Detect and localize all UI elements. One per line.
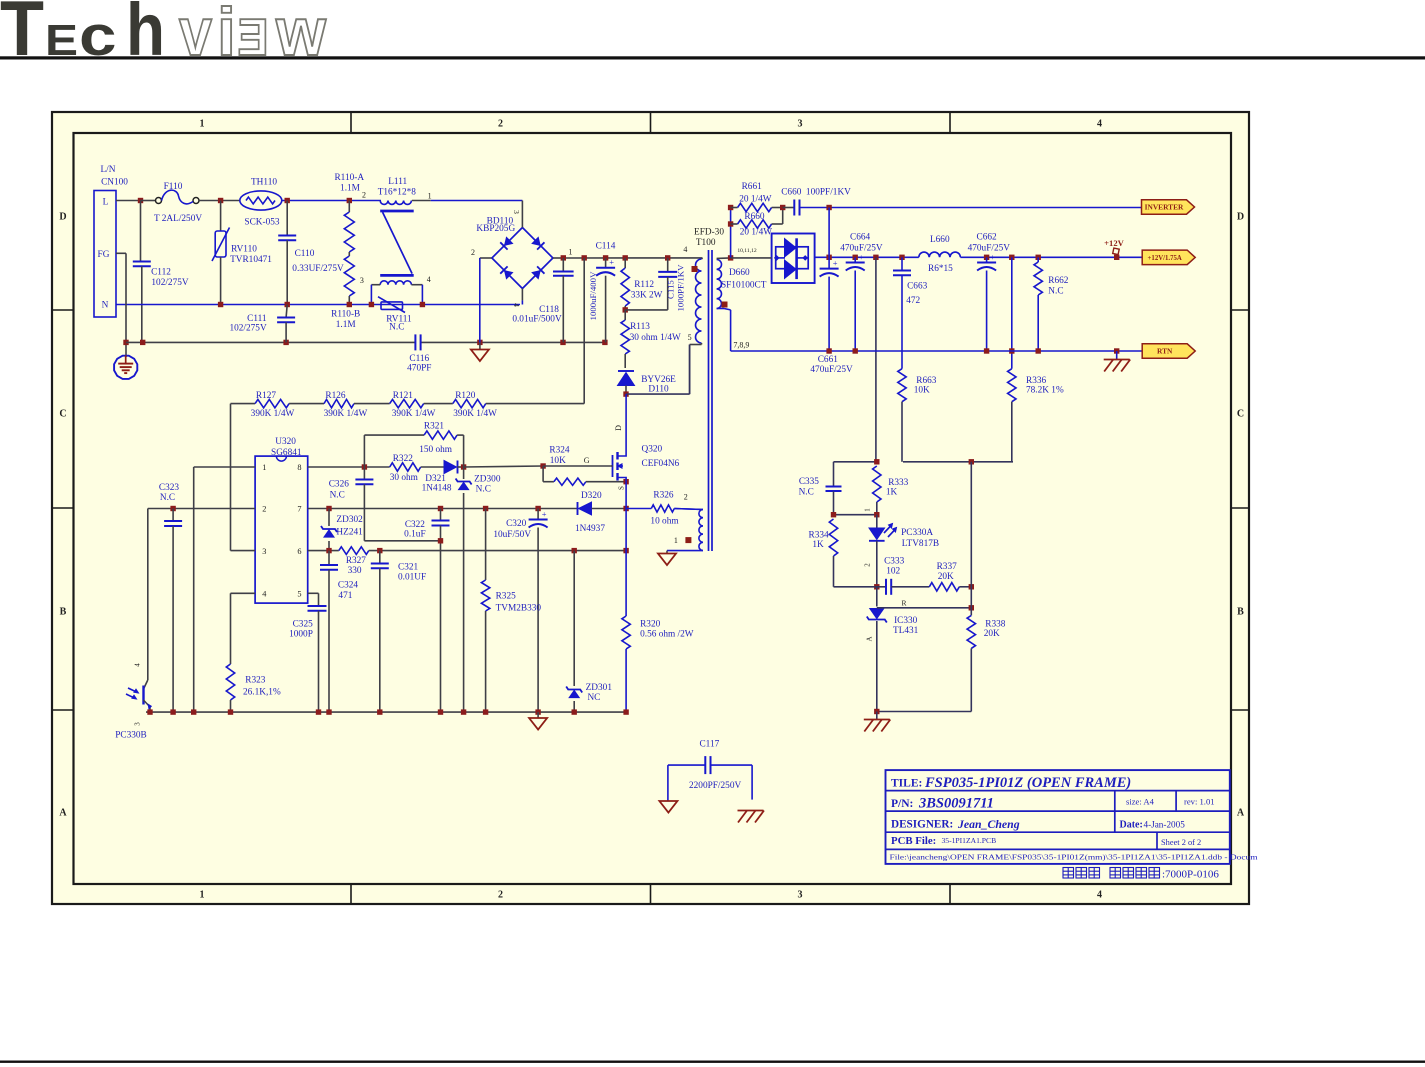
svg-text:RV110: RV110 [231,245,257,255]
svg-text:FG: FG [98,250,110,260]
svg-text:1000uF/400V: 1000uF/400V [588,271,598,321]
svg-text:R661: R661 [742,182,762,192]
svg-text:102/275V: 102/275V [229,323,266,333]
svg-text:L: L [103,198,109,208]
svg-text:471: 471 [338,591,352,601]
svg-text:A: A [866,636,874,641]
svg-text:N.C: N.C [476,485,491,495]
svg-text:T16*12*8: T16*12*8 [378,187,417,197]
svg-text:U320: U320 [275,437,296,447]
svg-text:C: C [59,409,66,420]
svg-text:+: + [833,258,838,268]
svg-text:SCK-053: SCK-053 [244,218,279,228]
svg-text::7000P-0106: :7000P-0106 [1162,869,1219,881]
svg-text:L111: L111 [388,177,407,187]
svg-text:470uF/25V: 470uF/25V [810,365,853,375]
svg-text:SF10100CT: SF10100CT [721,281,767,291]
svg-text:R334: R334 [809,530,829,540]
svg-text:B: B [1237,607,1244,618]
svg-text:C321: C321 [398,563,418,573]
svg-text:7,8,9: 7,8,9 [733,341,749,350]
svg-text:IC330: IC330 [894,616,918,626]
svg-text:2: 2 [864,563,872,567]
svg-text:4: 4 [683,245,687,254]
svg-text:472: 472 [906,296,920,306]
svg-text:1: 1 [200,119,205,130]
svg-text:3: 3 [512,210,521,214]
svg-text:FSP035-1PI01Z (OPEN FRAME): FSP035-1PI01Z (OPEN FRAME) [924,775,1131,791]
svg-text:R327: R327 [346,556,366,566]
svg-text:TH110: TH110 [251,178,277,188]
svg-text:EFD-30: EFD-30 [694,227,724,237]
svg-text:TVM2B330: TVM2B330 [496,603,542,613]
svg-text:R113: R113 [630,322,650,332]
svg-text:102/275V: 102/275V [151,278,188,288]
svg-text:PCB File:: PCB File: [891,835,936,847]
svg-text:CN100: CN100 [101,178,128,188]
svg-text:R110-B: R110-B [331,310,360,320]
svg-text:1: 1 [428,192,432,201]
svg-text:Date:: Date: [1120,819,1143,830]
svg-text:C323: C323 [159,483,179,493]
svg-text:0.1uF: 0.1uF [404,530,425,540]
svg-text:4: 4 [512,303,521,307]
svg-text:C116: C116 [409,354,429,364]
svg-text:390K 1/4W: 390K 1/4W [324,409,368,419]
svg-text:R336: R336 [1026,376,1046,386]
svg-text:size: A4: size: A4 [1126,796,1155,806]
svg-text:7: 7 [297,505,301,514]
svg-text:C: C [1237,409,1244,420]
svg-text:1K: 1K [886,488,898,498]
svg-text:20K: 20K [938,572,954,582]
svg-text:P/N:: P/N: [891,798,913,810]
svg-text:File:\jeancheng\OPEN FRAME\FSP: File:\jeancheng\OPEN FRAME\FSP035\35-1PI… [890,854,1259,862]
svg-text:470uF/25V: 470uF/25V [968,244,1011,254]
svg-text:20 1/4W: 20 1/4W [739,194,772,204]
svg-text:T100: T100 [696,238,716,248]
svg-text:1K: 1K [812,540,824,550]
svg-text:A: A [1237,808,1245,819]
svg-text:1: 1 [569,247,573,256]
svg-text:R6*15: R6*15 [928,264,953,274]
svg-text:0.01UF: 0.01UF [398,572,426,582]
svg-text:KBP205G: KBP205G [476,224,515,234]
svg-text:5: 5 [297,590,301,599]
svg-text:0.33UF/275V: 0.33UF/275V [292,264,344,274]
svg-text:20K: 20K [984,629,1000,639]
svg-text:10,11,12: 10,11,12 [737,248,757,254]
svg-text:+12V/1.75A: +12V/1.75A [1148,255,1182,262]
svg-text:ZD300: ZD300 [474,475,501,485]
svg-text:0.01uF/500V: 0.01uF/500V [512,315,562,325]
svg-text:C118: C118 [539,305,559,315]
svg-text:NC: NC [587,693,600,703]
svg-text:G: G [584,456,590,465]
svg-text:+12V: +12V [1104,238,1124,248]
svg-text:R333: R333 [888,478,908,488]
svg-text:4: 4 [1097,119,1102,130]
svg-text:33K 2W: 33K 2W [631,291,663,301]
svg-text:R320: R320 [640,620,660,630]
svg-text:R662: R662 [1048,276,1068,286]
svg-text:DESIGNER:: DESIGNER: [891,818,953,830]
svg-text:D: D [59,212,66,223]
svg-text:3BS0091711: 3BS0091711 [918,796,994,812]
svg-text:0.56 ohm /2W: 0.56 ohm /2W [640,630,694,640]
svg-text:4-Jan-2005: 4-Jan-2005 [1144,819,1186,829]
svg-text:390K 1/4W: 390K 1/4W [453,409,497,419]
svg-text:C117: C117 [699,740,719,750]
svg-text:C325: C325 [293,620,313,630]
svg-text:h: h [126,0,165,71]
svg-text:+: + [609,257,614,267]
svg-text:R325: R325 [496,591,516,601]
svg-text:N.C: N.C [389,323,404,333]
svg-text:2: 2 [498,890,503,901]
svg-text:1.1M: 1.1M [336,320,356,330]
svg-text:Sheet 2 of 2: Sheet 2 of 2 [1161,838,1201,847]
svg-text:R121: R121 [393,391,413,401]
svg-text:4: 4 [427,275,431,284]
svg-text:2: 2 [262,505,266,514]
svg-text:470uF/25V: 470uF/25V [840,244,883,254]
svg-text:3: 3 [360,276,364,285]
svg-text:Jean_Cheng: Jean_Cheng [957,817,1020,831]
svg-text:8: 8 [297,463,301,472]
svg-text:PC330B: PC330B [115,731,147,741]
svg-text:1: 1 [674,536,678,545]
svg-text:L660: L660 [930,235,950,245]
svg-text:C333: C333 [884,557,904,567]
svg-text:D320: D320 [581,491,602,501]
svg-text:R127: R127 [256,391,276,401]
svg-text:10uF/50V: 10uF/50V [493,530,531,540]
svg-text:N.C: N.C [330,490,345,500]
svg-text:T 2AL/250V: T 2AL/250V [154,214,202,224]
svg-text:R: R [901,598,906,607]
svg-text:390K 1/4W: 390K 1/4W [392,409,436,419]
svg-text:CEF04N6: CEF04N6 [642,459,680,469]
svg-text:R660: R660 [744,212,764,222]
svg-text:R321: R321 [424,422,444,432]
svg-text:A: A [59,808,67,819]
svg-text:D: D [1237,212,1244,223]
svg-text:R112: R112 [634,280,654,290]
svg-text:S: S [618,486,626,490]
svg-text:C660: C660 [781,188,801,198]
svg-text:INVERTER: INVERTER [1145,203,1184,212]
svg-text:390K 1/4W: 390K 1/4W [251,409,295,419]
svg-text:30 ohm: 30 ohm [390,473,419,483]
svg-text:20 1/4W: 20 1/4W [740,228,773,238]
svg-text:C322: C322 [405,520,425,530]
svg-text:D321: D321 [425,474,446,484]
svg-text:C114: C114 [596,242,616,252]
svg-text:4: 4 [134,663,142,667]
svg-text:F110: F110 [164,182,183,192]
svg-text:L/N: L/N [101,165,116,175]
svg-text:102: 102 [886,566,900,576]
svg-text:N: N [102,301,109,311]
svg-text:B: B [60,607,67,618]
svg-text:C326: C326 [329,480,349,490]
svg-text:1: 1 [200,890,205,901]
svg-text:2: 2 [362,191,366,200]
svg-text:RTN: RTN [1157,347,1173,356]
svg-text:BYV26E: BYV26E [641,375,676,385]
svg-text:C661: C661 [818,355,838,365]
svg-text:TVR10471: TVR10471 [230,255,272,265]
svg-text:100PF/1KV: 100PF/1KV [806,188,851,198]
svg-text:D660: D660 [729,268,750,278]
svg-text:4: 4 [1097,890,1102,901]
svg-text:C664: C664 [850,233,870,243]
svg-text:5: 5 [688,333,692,342]
svg-text:330: 330 [348,566,362,576]
svg-text:+: + [542,509,547,519]
svg-text:C662: C662 [977,233,997,243]
svg-text:78.2K 1%: 78.2K 1% [1026,386,1064,396]
svg-text:ZD301: ZD301 [586,683,613,693]
svg-text:N.C: N.C [160,493,175,503]
svg-text:HZ241: HZ241 [336,528,363,538]
svg-text:C320: C320 [506,519,526,529]
svg-text:R326: R326 [653,490,673,500]
svg-text:26.1K,1%: 26.1K,1% [243,688,281,698]
svg-text:ZD302: ZD302 [336,515,363,525]
svg-text:10K: 10K [550,456,566,466]
svg-text:SG6841: SG6841 [271,448,302,458]
svg-text:1.1M: 1.1M [340,183,360,193]
svg-text:3: 3 [798,119,803,130]
svg-text:R120: R120 [455,391,475,401]
svg-text:470PF: 470PF [407,364,431,374]
svg-text:35-1PI1ZA1.PCB: 35-1PI1ZA1.PCB [942,836,997,845]
svg-text:6: 6 [297,547,301,556]
svg-text:2: 2 [684,493,688,502]
svg-text:Q320: Q320 [642,444,663,454]
svg-text:C324: C324 [338,580,358,590]
svg-text:R324: R324 [549,446,569,456]
svg-text:C663: C663 [907,282,927,292]
svg-text:10 ohm: 10 ohm [650,517,679,527]
svg-text:1: 1 [262,463,266,472]
svg-text:D110: D110 [648,385,669,395]
svg-text:2: 2 [498,119,503,130]
svg-text:30 ohm 1/4W: 30 ohm 1/4W [630,333,681,343]
svg-text:C110: C110 [295,249,315,259]
svg-text:R126: R126 [325,391,345,401]
svg-text:1: 1 [864,508,872,512]
svg-text:3: 3 [134,722,142,726]
svg-text:1000P: 1000P [289,630,313,640]
svg-text:R338: R338 [985,620,1005,630]
svg-text:R322: R322 [393,454,413,464]
svg-text:150 ohm: 150 ohm [419,445,453,455]
svg-text:1N4937: 1N4937 [575,524,605,534]
svg-text:2: 2 [471,248,475,257]
svg-text:TL431: TL431 [893,626,919,636]
svg-text:3: 3 [798,890,803,901]
svg-text:rev: 1.01: rev: 1.01 [1184,796,1215,806]
svg-text:N.C: N.C [1048,287,1063,297]
svg-text:C115: C115 [666,280,676,299]
svg-text:R337: R337 [937,562,957,572]
svg-text:LTV817B: LTV817B [902,539,939,549]
svg-text:3: 3 [262,547,266,556]
svg-text:TILE:: TILE: [891,777,922,789]
svg-text:10K: 10K [914,386,930,396]
svg-text:1N4148: 1N4148 [422,484,452,494]
svg-text:2200PF/250V: 2200PF/250V [689,781,741,791]
svg-text:R663: R663 [916,376,936,386]
svg-text:N.C: N.C [799,488,814,498]
svg-text:1000PF/1KV: 1000PF/1KV [676,264,686,312]
svg-text:D: D [614,425,623,431]
svg-text:PC330A: PC330A [901,528,933,538]
svg-text:T: T [0,0,44,72]
svg-text:R110-A: R110-A [334,173,364,183]
svg-text:C112: C112 [151,268,171,278]
svg-text:C335: C335 [799,477,819,487]
svg-text:R323: R323 [245,676,265,686]
